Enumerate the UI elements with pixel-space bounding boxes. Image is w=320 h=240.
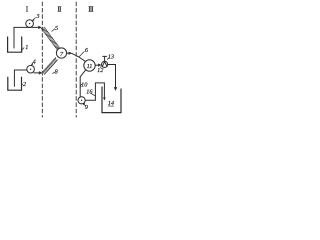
vessel 1 (beaker, top-left) <box>8 37 22 52</box>
discharge pipe pump 4 into coil 8 <box>34 72 40 74</box>
vessel 2 (beaker, bottom-left) <box>8 77 22 90</box>
svg-text:11: 11 <box>87 63 93 70</box>
label 5 leader <box>52 29 55 32</box>
pipe reactor 11 down to pump 9 <box>80 70 86 97</box>
label 2 leader <box>22 83 23 86</box>
svg-text:1: 1 <box>25 44 28 51</box>
label 8 leader <box>52 71 54 74</box>
label 16 leader <box>91 93 95 95</box>
svg-text:4: 4 <box>33 58 36 65</box>
label 9 leader arrow <box>84 104 86 106</box>
pump 3 <box>26 20 34 28</box>
mixer 7 <box>56 48 66 58</box>
discharge pipe pump 9 over into vessel 14 <box>85 83 104 100</box>
valve 13 <box>102 61 108 67</box>
svg-text:6: 6 <box>85 47 89 54</box>
svg-text:10: 10 <box>81 81 88 88</box>
dip tube into vessel 2 / suction pipe to pump 4 <box>14 70 26 86</box>
vessel 14 (beaker, bottom-right) <box>102 87 121 113</box>
coil 5 (heated coil zone I to mixer) <box>41 27 60 51</box>
svg-text:16: 16 <box>86 89 93 96</box>
dip tube into vessel 1 / suction pipe to pump 3 <box>14 27 39 48</box>
arrowhead into coil 5 <box>39 26 42 29</box>
pump 3 leader <box>33 18 36 21</box>
svg-text:III: III <box>88 5 94 14</box>
label 13 leader <box>107 58 109 60</box>
pipe reactor 11 to valve 13 <box>95 64 99 66</box>
svg-text:3: 3 <box>35 13 39 20</box>
zone boundary dashed line I/II <box>41 2 43 117</box>
pump 4 <box>27 65 35 73</box>
pipe mixer 7 to reactor 11 <box>67 52 70 54</box>
pump 9 <box>78 97 85 104</box>
pipe valve 13 down to vessel 14 <box>108 65 116 89</box>
svg-text:13: 13 <box>108 53 114 60</box>
svg-text:5: 5 <box>55 25 58 32</box>
label 6 leader <box>79 52 84 57</box>
coil 8 (coil from pump 4 to mixer) <box>42 57 58 74</box>
svg-text:8: 8 <box>55 68 59 75</box>
svg-text:I: I <box>26 5 29 14</box>
svg-text:9: 9 <box>85 104 89 111</box>
svg-text:2: 2 <box>23 81 27 88</box>
reactor 11 <box>84 60 95 71</box>
svg-text:II: II <box>57 5 62 14</box>
zone boundary dashed line II/III <box>75 2 77 117</box>
label 1 leader <box>22 48 24 50</box>
pump 4 leader <box>32 63 34 65</box>
label 10 leader <box>80 84 82 88</box>
